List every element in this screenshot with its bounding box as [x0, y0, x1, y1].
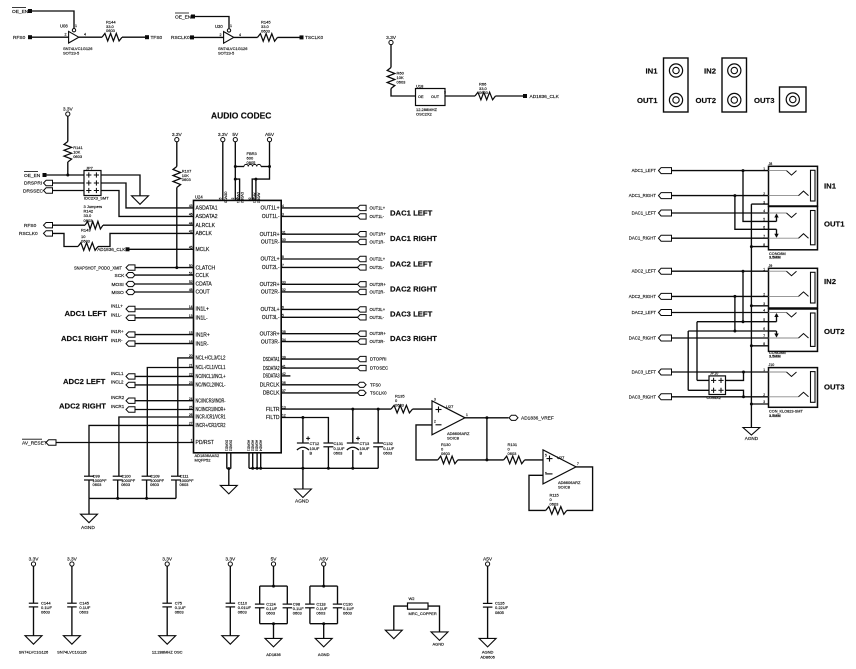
svg-text:TSCLK0: TSCLK0	[370, 390, 387, 395]
svg-text:CDATA: CDATA	[196, 282, 213, 288]
svg-text:TFS0: TFS0	[151, 35, 163, 41]
junction DGND	[227, 467, 230, 470]
IC U24 AD1836AAS2 body	[194, 200, 282, 452]
wire DRSPRI to JP7	[53, 182, 85, 184]
svg-text:AD1836_CLK: AD1836_CLK	[97, 247, 126, 252]
node OE_EN (buffer A enable)	[12, 8, 32, 15]
svg-text:B: B	[310, 450, 313, 455]
wire R60 to oscillator OE	[391, 89, 416, 97]
power 3.3V (oscillator pull-up)	[389, 40, 393, 44]
svg-text:AD1836: AD1836	[266, 652, 281, 657]
node DAC1_RIGHT	[629, 235, 672, 241]
svg-text:DVDD2: DVDD2	[240, 192, 244, 203]
node OUT1L-	[358, 214, 385, 219]
wire OUT2 sleeve to ground bus	[751, 345, 768, 347]
svg-text:OUT2L-: OUT2L-	[262, 265, 280, 271]
svg-text:3.3V: 3.3V	[29, 556, 40, 562]
svg-text:AGND: AGND	[295, 498, 309, 504]
power 3.3V (codec ODVDD)	[221, 138, 225, 142]
svg-text:SCK: SCK	[115, 273, 126, 279]
capacitor C131 0.1UF	[323, 441, 345, 455]
svg-text:15: 15	[189, 331, 193, 335]
svg-text:J10: J10	[769, 363, 775, 367]
wire A5V to AVDD pins	[252, 142, 269, 201]
svg-text:OUT1L-: OUT1L-	[370, 214, 385, 219]
svg-text:IN1R-: IN1R-	[111, 338, 123, 343]
svg-text:5V: 5V	[271, 556, 278, 562]
wire R66 to AD1836_CLK	[496, 95, 524, 97]
wire AVDD2 branch	[255, 179, 257, 200]
svg-text:DAC2_RIGHT: DAC2_RIGHT	[629, 336, 657, 341]
svg-text:3.3V: 3.3V	[172, 132, 183, 138]
wire IN1L+ to codec	[135, 308, 194, 310]
svg-text:51: 51	[189, 271, 193, 275]
svg-text:5V: 5V	[232, 132, 239, 138]
jack circle OUT2	[728, 93, 741, 106]
svg-text:OUT1R+: OUT1R+	[370, 232, 387, 237]
svg-text:MOSI: MOSI	[112, 282, 124, 288]
svg-text:OUT1: OUT1	[637, 96, 658, 105]
svg-text:SOIC8: SOIC8	[558, 485, 571, 490]
node SNAPSHOT_PODO_XMIT	[74, 265, 135, 272]
wire CT13 top	[352, 409, 354, 443]
wire codec OUT1R+	[281, 233, 357, 235]
wire JP7 row1 to ground	[101, 175, 140, 196]
svg-text:RFS0: RFS0	[13, 35, 26, 41]
svg-text:AGND: AGND	[745, 436, 759, 441]
svg-text:OUT3R+: OUT3R+	[370, 331, 387, 336]
svg-text:DTOPRI: DTOPRI	[370, 357, 387, 362]
connector body IN2/OUT2	[722, 58, 747, 112]
svg-text:U18: U18	[416, 83, 424, 88]
svg-text:2: 2	[220, 33, 222, 37]
wire buffer B output	[234, 36, 258, 38]
ground (W2 left)	[385, 630, 402, 639]
svg-text:0603: 0603	[334, 450, 344, 455]
svg-text:COUT: COUT	[196, 290, 210, 296]
IC top pin names (rotated)	[223, 191, 260, 203]
svg-text:0805: 0805	[495, 610, 505, 615]
wire C132 top	[377, 409, 379, 443]
node RSCLK0 (codec)	[19, 231, 53, 238]
svg-text:ADC2 RIGHT: ADC2 RIGHT	[59, 402, 106, 411]
svg-text:U27: U27	[446, 404, 454, 409]
power A5V / capacitors C118 C130 0.1UF / ground AGND	[305, 556, 354, 657]
node OUT3R+	[358, 331, 387, 336]
node DAC2_LEFT	[632, 310, 672, 316]
svg-text:52: 52	[189, 280, 193, 284]
svg-text:IN2: IN2	[704, 66, 716, 75]
wire codec CM pin to filter cap	[119, 417, 194, 476]
svg-text:3: 3	[444, 90, 446, 94]
svg-text:DRSPRI: DRSPRI	[24, 180, 42, 186]
svg-text:0603: 0603	[93, 482, 103, 487]
svg-text:NC/INCL1/INCL+: NC/INCL1/INCL+	[196, 374, 226, 380]
svg-text:R143: R143	[81, 227, 91, 232]
svg-text:22: 22	[189, 373, 193, 377]
capacitor C109 1000PF	[142, 473, 165, 487]
resistor R135 0	[391, 394, 413, 413]
svg-text:ADC1 RIGHT: ADC1 RIGHT	[61, 334, 108, 343]
power 5V / capacitors C124 C98 0.1UF / ground AD1836	[255, 556, 304, 657]
svg-text:23: 23	[189, 381, 193, 385]
svg-text:A5V: A5V	[483, 556, 493, 562]
svg-text:U24: U24	[195, 195, 203, 200]
svg-text:AD1836_CLK: AD1836_CLK	[530, 94, 560, 100]
junction FILTD cap	[301, 416, 304, 419]
svg-text:CON_KLO823-SMT: CON_KLO823-SMT	[769, 409, 803, 413]
capacitor CT12 10UF	[297, 436, 320, 455]
svg-text:OUT3R-: OUT3R-	[261, 339, 280, 345]
svg-text:DGND2: DGND2	[228, 440, 232, 451]
svg-text:12.288MHZ OSC: 12.288MHZ OSC	[152, 650, 183, 655]
svg-text:3.3V: 3.3V	[386, 35, 397, 41]
wire RFS0 to R142	[53, 224, 86, 226]
wire codec DSDATA2	[281, 367, 357, 369]
power A5V (codec AVDD)	[267, 138, 271, 142]
power 5V (codec DVDD)	[233, 138, 237, 142]
wire oscillator OUT to R66	[445, 95, 475, 97]
svg-text:0805: 0805	[247, 160, 257, 165]
node OUT2R-	[358, 289, 386, 294]
wire codec OUT3L-	[281, 316, 357, 318]
wire JP7 row2 to ASDATA1	[101, 183, 194, 208]
svg-text:OUT1R+: OUT1R+	[260, 232, 280, 238]
ground AGND (W2 right)	[431, 632, 448, 647]
node DTOPRI	[358, 356, 387, 361]
power 3.3V / capacitor C144 0.1UF / ground	[19, 556, 53, 654]
svg-text:AGND: AGND	[433, 642, 445, 647]
svg-text:OUT2L-: OUT2L-	[370, 265, 385, 270]
node OUT3L+	[358, 307, 386, 312]
wire C109 to AGND bus	[146, 480, 148, 498]
wire DGND to ground	[228, 469, 230, 486]
wire codec OUT2L-	[281, 266, 357, 268]
svg-text:35: 35	[219, 197, 223, 201]
jack IN2 (3.5mm)	[769, 268, 818, 308]
svg-text:14: 14	[189, 305, 193, 309]
svg-text:16: 16	[189, 340, 193, 344]
svg-text:OUT3L-: OUT3L-	[370, 315, 385, 320]
svg-text:OUT2L+: OUT2L+	[260, 257, 279, 263]
node ADC2_RIGHT	[629, 293, 672, 299]
wire ADC1_LEFT to OUT1 tip switch	[743, 171, 769, 222]
svg-text:2: 2	[763, 192, 765, 196]
junction ADC1_RIGHT loopback	[733, 194, 736, 197]
svg-text:2: 2	[65, 33, 67, 37]
jumper JP10	[707, 372, 726, 400]
wire MISO to COUT	[135, 291, 194, 293]
wire AGND bus	[249, 467, 378, 469]
wire C99 to AGND bus	[88, 480, 90, 498]
wire DVDD2 branch	[235, 179, 239, 200]
wire 3.3V to R107	[176, 142, 178, 167]
svg-text:TSCLK0: TSCLK0	[305, 35, 323, 41]
svg-text:3.5MM: 3.5MM	[769, 355, 781, 359]
svg-text:PD/RST: PD/RST	[196, 440, 214, 446]
svg-text:AGND: AGND	[81, 525, 95, 531]
junction AVDD pins	[254, 178, 257, 181]
svg-text:SN74LVC1G126: SN74LVC1G126	[19, 650, 49, 655]
jack circle OUT1	[669, 93, 682, 106]
junction DAC3_LEFT	[742, 371, 745, 374]
connector body IN1/OUT1	[664, 58, 689, 112]
capacitor C132 0.1UF	[373, 441, 395, 455]
svg-text:NCL-/CL1/VCL1: NCL-/CL1/VCL1	[196, 365, 226, 371]
svg-text:7: 7	[577, 462, 579, 466]
svg-text:INCL2: INCL2	[111, 379, 124, 384]
wire INCL1 to codec	[135, 375, 194, 377]
wire buffer A output	[79, 36, 102, 38]
node INCR2	[111, 395, 135, 403]
junction ADC2_RIGHT loopback	[733, 295, 736, 298]
wire AGND bus to ground	[302, 468, 304, 489]
ferrite bead FBR3 600	[244, 151, 261, 167]
wire R143 to ABCLK	[98, 233, 194, 246]
svg-text:1: 1	[75, 24, 77, 28]
wire ADC2_RIGHT to OUT2 ring switch and JP10	[734, 296, 736, 331]
svg-text:OUT1R-: OUT1R-	[261, 240, 280, 246]
node IN1L+	[111, 304, 135, 312]
svg-text:3: 3	[434, 398, 436, 402]
svg-text:ADC2_RIGHT: ADC2_RIGHT	[629, 294, 657, 299]
resistor R142 33.0	[84, 204, 104, 229]
wire OUT3 sleeve to ground bus	[751, 403, 768, 405]
svg-text:0603: 0603	[293, 611, 303, 616]
svg-text:SN74LVC1G126: SN74LVC1G126	[57, 650, 87, 655]
svg-text:DBCLK: DBCLK	[263, 391, 280, 397]
wire CT12 bottom	[302, 450, 304, 468]
wire RSCLK0 to R143	[53, 233, 79, 246]
node TSCLK0 (codec)	[358, 390, 388, 395]
wire FILTR net	[281, 408, 391, 410]
wire W2 left to ground	[394, 606, 408, 630]
wire C100 to AGND bus	[117, 480, 119, 498]
svg-text:J8: J8	[769, 162, 773, 166]
svg-text:NCL+/CL3/CL2: NCL+/CL3/CL2	[196, 356, 226, 362]
svg-text:DAC1_LEFT: DAC1_LEFT	[632, 211, 657, 216]
svg-text:OUT3R-: OUT3R-	[370, 339, 386, 344]
wire codec OUT3R+	[281, 333, 357, 335]
svg-text:1: 1	[763, 267, 765, 271]
junction ferrite/A5V	[268, 165, 271, 168]
node RFS0	[13, 35, 32, 41]
junction CM bus	[116, 497, 119, 500]
wire codec OUT3L+	[281, 308, 357, 310]
svg-text:OUT2: OUT2	[824, 327, 845, 336]
svg-text:FILTD: FILTD	[266, 415, 280, 421]
svg-text:INCL1: INCL1	[111, 371, 124, 376]
svg-text:MRC_COPPER: MRC_COPPER	[409, 611, 437, 616]
wire codec CM pin to filter cap	[89, 425, 194, 476]
IC top pin numbers	[219, 197, 256, 201]
wire AV_RESET to PD/RST	[56, 442, 194, 444]
svg-text:FILTR: FILTR	[266, 407, 280, 413]
wire OE_EN to buffer A enable	[31, 11, 74, 28]
svg-text:0603: 0603	[266, 611, 276, 616]
wire DAC1_RIGHT to jack	[672, 237, 769, 239]
svg-text:ASDATA2: ASDATA2	[196, 214, 218, 220]
wire codec DBCLK	[281, 392, 357, 394]
svg-text:DAC2 LEFT: DAC2 LEFT	[390, 259, 433, 268]
buffer U30 (SN74LVC1G126)	[215, 24, 248, 56]
svg-text:OUT3: OUT3	[824, 383, 845, 392]
node RSCLK0 (buffer B input)	[171, 35, 194, 41]
svg-text:6: 6	[545, 472, 547, 476]
svg-text:3.3V: 3.3V	[63, 106, 74, 112]
ground AGND (codec)	[294, 489, 311, 504]
node DRSSEC	[23, 188, 53, 195]
node INCL1	[111, 371, 135, 379]
svg-text:ADC1_RIGHT: ADC1_RIGHT	[629, 193, 657, 198]
wire IN1R+ to codec	[135, 334, 194, 336]
wire codec DSDATA1	[281, 358, 357, 360]
svg-text:1: 1	[763, 167, 765, 171]
ground AGND (jacks)	[743, 428, 760, 441]
capacitor C99 1000PF	[84, 473, 107, 487]
resistor R144 33.0	[102, 19, 122, 41]
svg-text:2: 2	[434, 420, 436, 424]
resistor R141 10K	[64, 142, 84, 163]
wire codec OUT2R-	[281, 291, 357, 293]
wire ADC2_LEFT to OUT2 tip switch and JP10	[742, 271, 744, 322]
wire CT13 bottom	[352, 450, 354, 468]
svg-text:INCR1: INCR1	[111, 404, 125, 409]
svg-text:IN1: IN1	[824, 182, 837, 191]
svg-text:DAC3 RIGHT: DAC3 RIGHT	[390, 334, 437, 343]
oscillator U18 12.288MHZ	[416, 83, 447, 116]
svg-text:RSCLK0: RSCLK0	[171, 35, 190, 41]
wire SNAPSHOT to CLATCH	[135, 267, 194, 269]
svg-text:3.3V: 3.3V	[225, 556, 236, 562]
jack circle OUT3	[786, 93, 799, 106]
wire RSCLK0 to buffer B	[194, 36, 224, 38]
svg-text:OUT3R+: OUT3R+	[260, 331, 280, 337]
svg-text:OE_EN: OE_EN	[12, 9, 29, 15]
node IN1L-	[111, 312, 135, 320]
svg-text:OUT1L+: OUT1L+	[370, 205, 386, 210]
svg-text:DVDD1: DVDD1	[236, 192, 240, 203]
svg-text:OUT3L-: OUT3L-	[262, 315, 280, 321]
svg-text:OUT3L+: OUT3L+	[370, 307, 386, 312]
svg-text:4: 4	[239, 33, 241, 37]
wire U27A feedback	[416, 425, 438, 460]
svg-text:0603: 0603	[121, 482, 131, 487]
wire MOSI to CDATA	[135, 283, 194, 285]
op-amp U27A AD8606ARZ	[432, 398, 470, 441]
svg-text:OUT1: OUT1	[824, 219, 845, 228]
svg-text:AGND4: AGND4	[258, 440, 262, 451]
svg-text:JP7: JP7	[86, 165, 94, 170]
node OUT2R+	[358, 282, 387, 287]
wire CT12 top	[302, 418, 304, 444]
junction R107/CLATCH	[175, 266, 178, 269]
svg-text:OE: OE	[418, 95, 424, 99]
svg-text:20: 20	[189, 354, 193, 358]
svg-text:AVDD2: AVDD2	[256, 193, 260, 204]
wire 5V to DVDD pins	[234, 142, 236, 201]
svg-text:0603: 0603	[106, 28, 116, 33]
svg-text:ODVDD: ODVDD	[223, 191, 227, 203]
svg-text:JP10: JP10	[710, 372, 718, 376]
svg-text:NC/INCR1/INOR+: NC/INCR1/INOR+	[196, 407, 226, 413]
svg-text:ADC2_LEFT: ADC2_LEFT	[632, 269, 657, 274]
node ADC1_RIGHT	[629, 193, 672, 199]
wire IN1L- to codec	[135, 317, 194, 319]
svg-text:44: 44	[189, 221, 193, 225]
svg-text:IN1: IN1	[646, 66, 659, 75]
svg-text:7: 7	[763, 234, 765, 238]
junction ADC2 tip switch	[742, 320, 745, 323]
svg-text:OUT2R+: OUT2R+	[370, 282, 387, 287]
op-amp U27B AD8606ARZ	[543, 450, 581, 490]
svg-text:0603: 0603	[508, 451, 518, 456]
svg-text:DRSSEC: DRSSEC	[23, 188, 44, 194]
capacitor C100 1000PF	[113, 473, 136, 487]
wire bus to AGND	[88, 498, 90, 514]
capacitor C111 1000PF	[171, 473, 194, 487]
node TFS0	[145, 35, 163, 41]
svg-text:A5V: A5V	[265, 132, 275, 138]
svg-text:OUT1R-: OUT1R-	[370, 239, 386, 244]
svg-text:AUDIO CODEC: AUDIO CODEC	[211, 111, 271, 121]
junction 5V/ferrite	[234, 165, 237, 168]
buffer U08 (SN74LVC1G126)	[60, 24, 93, 56]
svg-text:INCR2: INCR2	[111, 395, 125, 400]
svg-text:DGND1: DGND1	[224, 440, 228, 451]
jumper JP7 IDC2X3_SMT	[84, 165, 109, 200]
svg-text:OUT3L+: OUT3L+	[260, 307, 279, 313]
svg-text:5: 5	[545, 454, 547, 458]
wire to R131	[487, 459, 504, 461]
svg-text:4: 4	[763, 209, 765, 213]
wire R144 to TFS0	[122, 36, 146, 38]
wire DRSSEC to JP7	[53, 190, 85, 192]
svg-text:2: 2	[763, 293, 765, 297]
svg-text:AD1836_VREF: AD1836_VREF	[521, 416, 554, 422]
svg-text:OSC2X2: OSC2X2	[416, 112, 433, 117]
junction OE_EN/R141	[66, 174, 69, 177]
wire AD1836_CLK to MCLK	[129, 248, 194, 250]
wire ferrite to A5V	[235, 166, 244, 168]
junction DAC3_RIGHT	[742, 395, 745, 398]
svg-text:ADC2 LEFT: ADC2 LEFT	[63, 377, 106, 386]
svg-text:0603: 0603	[397, 79, 407, 84]
node MOSI	[112, 281, 136, 288]
node AD1836_VREF	[509, 415, 554, 421]
resistor R115 0	[546, 493, 567, 515]
svg-text:DAC1_RIGHT: DAC1_RIGHT	[629, 236, 657, 241]
wire OE_EN to JP7 pin1	[46, 174, 84, 176]
svg-text:OE_EN: OE_EN	[24, 173, 41, 179]
wire ADC1_RIGHT to OUT1 ring switch	[735, 196, 769, 230]
power 3.3V / capacitor C145 0.1UF / ground	[57, 556, 91, 654]
svg-text:DSDATA2: DSDATA2	[263, 366, 280, 372]
wire R107 to CLATCH net	[176, 188, 178, 268]
svg-text:OUT2: OUT2	[696, 96, 717, 105]
svg-text:AGND: AGND	[318, 652, 330, 657]
svg-text:ADC1_LEFT: ADC1_LEFT	[632, 168, 657, 173]
jack circle IN2	[728, 64, 741, 77]
svg-text:DSDATA3: DSDATA3	[263, 374, 280, 380]
svg-text:0603: 0603	[343, 611, 353, 616]
wire 3.3V to R141	[67, 116, 69, 141]
svg-text:4: 4	[763, 309, 765, 313]
wire CM cap ground bus	[89, 497, 176, 499]
ground AGND (CM caps)	[81, 514, 98, 531]
power A5V / capacitor C126 0.22UF / ground AGND AD8606	[479, 556, 509, 659]
svg-text:ABCLK: ABCLK	[196, 231, 213, 237]
